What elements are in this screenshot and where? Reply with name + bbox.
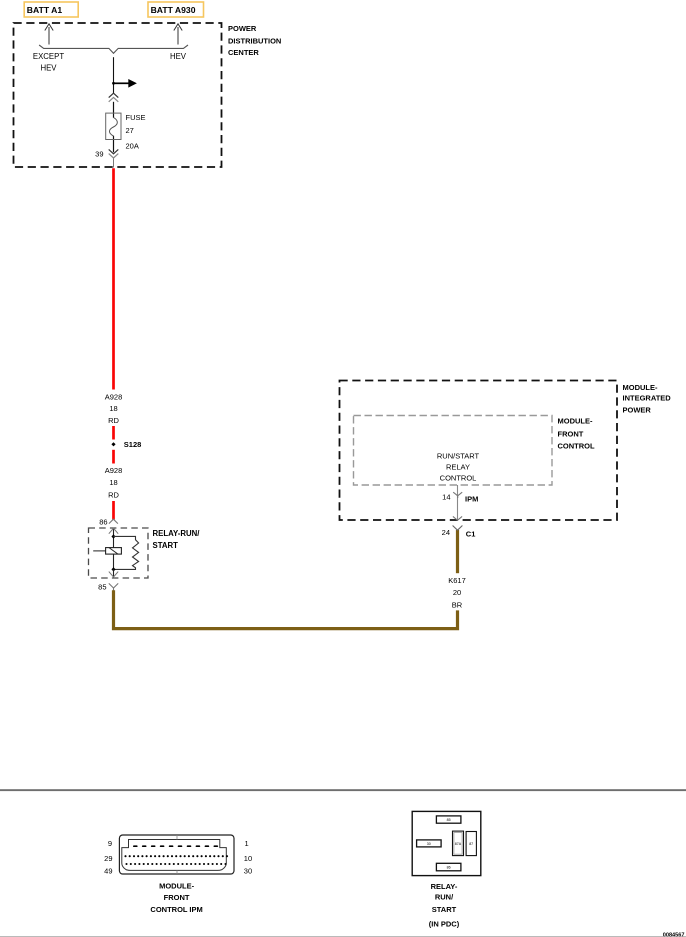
wire out of relay, arrowhead down <box>109 569 118 577</box>
wire: feed arrow to BATT A1 <box>45 24 53 45</box>
splice S128 <box>111 442 115 446</box>
connector pins row 1 <box>133 845 218 847</box>
relay cavity labels 85 30 87A 87 86 <box>427 818 473 870</box>
svg-text:DISTRIBUTION: DISTRIBUTION <box>228 36 281 45</box>
svg-text:RUN/START: RUN/START <box>437 452 480 461</box>
svg-text:CONTROL: CONTROL <box>440 473 477 482</box>
label FUSE 27 20A <box>126 113 146 150</box>
node: junction at branch <box>112 82 115 85</box>
label POWER DISTRIBUTION CENTER <box>228 24 281 57</box>
svg-text:HEV: HEV <box>40 64 57 73</box>
svg-text:39: 39 <box>95 149 103 158</box>
svg-text:20A: 20A <box>126 142 139 151</box>
svg-text:1: 1 <box>245 839 249 848</box>
power distribution center box <box>14 23 222 167</box>
connector: female half at pin 85 <box>109 583 118 590</box>
wire: PDC internal vertical (mid lower) <box>113 136 115 152</box>
svg-text:86: 86 <box>447 866 451 870</box>
svg-text:20: 20 <box>453 588 461 597</box>
battery feed box BATT A1 <box>24 2 78 17</box>
connector C1 female half <box>453 526 463 531</box>
wire: PDC internal vertical (upper) <box>113 57 115 93</box>
svg-text:86: 86 <box>99 517 107 526</box>
svg-text:18: 18 <box>109 404 117 413</box>
wire segment above splice <box>112 426 115 440</box>
battery feed box BATT A930 <box>148 2 204 17</box>
wire into relay with arrowhead <box>109 528 118 569</box>
label MODULE-INTEGRATED POWER <box>623 383 672 415</box>
connector IPM female half <box>453 492 462 498</box>
svg-text:29: 29 <box>104 854 112 863</box>
label A928 18 RD (2) <box>105 466 123 500</box>
connector symbol: double chevron down <box>109 149 119 158</box>
svg-text:S128: S128 <box>124 440 142 449</box>
label RELAY-RUN/ START <box>153 529 201 550</box>
connector symbol: double chevron up <box>109 93 119 102</box>
label EXCEPT HEV <box>33 52 64 73</box>
svg-text:18: 18 <box>109 478 117 487</box>
svg-text:CONTROL IPM: CONTROL IPM <box>150 905 202 914</box>
label RELAY- RUN/ START (IN PDC) <box>429 882 460 929</box>
svg-text:9: 9 <box>108 839 112 848</box>
svg-text:CONTROL: CONTROL <box>558 442 595 451</box>
svg-text:K617: K617 <box>448 576 466 585</box>
svg-text:A928: A928 <box>105 466 123 475</box>
relay RUN/START dashed box <box>89 528 149 578</box>
arrowhead at outer box border <box>453 516 462 520</box>
svg-text:24: 24 <box>442 528 450 537</box>
svg-text:FRONT: FRONT <box>558 429 584 438</box>
label RUN/START RELAY CONTROL <box>437 452 480 483</box>
svg-text:RELAY-: RELAY- <box>431 882 458 891</box>
svg-text:(IN PDC): (IN PDC) <box>429 920 460 929</box>
svg-text:RUN/: RUN/ <box>435 892 454 901</box>
label K617 20 BR <box>448 576 466 609</box>
connector pins row 2 <box>124 855 228 857</box>
svg-text:MODULE-: MODULE- <box>623 383 658 392</box>
svg-text:RD: RD <box>108 491 119 500</box>
svg-text:HEV: HEV <box>170 52 187 61</box>
wire IPM control line <box>457 485 459 520</box>
svg-text:85: 85 <box>447 818 451 822</box>
svg-text:POWER: POWER <box>623 406 652 415</box>
svg-text:A928: A928 <box>105 393 123 402</box>
svg-text:14: 14 <box>442 493 450 502</box>
svg-text:30: 30 <box>244 867 252 876</box>
svg-text:POWER: POWER <box>228 24 257 33</box>
svg-text:FRONT: FRONT <box>164 893 190 902</box>
wire K617 20 BR (left leg and bottom run) <box>114 590 458 628</box>
wire segment below splice <box>112 450 115 464</box>
node: coil bottom junction <box>111 567 115 571</box>
wire: feed arrow to BATT A930 <box>174 24 182 45</box>
svg-text:IPM: IPM <box>465 494 478 503</box>
wire: PDC internal vertical (lower gray) <box>113 158 115 168</box>
svg-text:START: START <box>153 541 179 550</box>
svg-text:INTEGRATED: INTEGRATED <box>623 394 672 403</box>
wire A928 18 RD segment 1 <box>112 168 115 389</box>
svg-text:BATT A1: BATT A1 <box>27 5 63 15</box>
svg-text:87A: 87A <box>455 842 462 846</box>
wire: PDC internal vertical (mid upper) <box>113 102 115 118</box>
svg-text:27: 27 <box>126 126 134 135</box>
svg-text:30: 30 <box>427 842 431 846</box>
svg-text:START: START <box>432 905 457 914</box>
label MODULE- FRONT CONTROL IPM <box>150 882 202 914</box>
wire K617 upper segment to C1 <box>456 530 459 573</box>
svg-text:BATT A930: BATT A930 <box>151 5 196 15</box>
label A928 18 RD <box>105 393 123 426</box>
connector: male half-arrow at pin 86 <box>109 519 118 523</box>
svg-text:EXCEPT: EXCEPT <box>33 52 64 61</box>
svg-text:10: 10 <box>244 854 252 863</box>
connector pins row 3 <box>125 863 226 865</box>
wire: branch arrow right <box>114 79 137 88</box>
fuse 27 <box>106 113 121 139</box>
wire A928 segment to relay <box>112 501 115 520</box>
svg-text:RELAY: RELAY <box>446 462 470 471</box>
svg-text:CENTER: CENTER <box>228 48 259 57</box>
node: coil top junction <box>111 534 115 538</box>
svg-text:87: 87 <box>469 842 473 846</box>
svg-text:RELAY-RUN/: RELAY-RUN/ <box>153 529 201 538</box>
svg-text:FUSE: FUSE <box>126 113 146 122</box>
svg-text:RD: RD <box>108 416 119 425</box>
svg-text:MODULE-: MODULE- <box>558 417 593 426</box>
bottom edge line <box>0 935 686 937</box>
relay cavity view RELAY-RUN/START <box>412 811 481 875</box>
label MODULE- FRONT CONTROL <box>558 417 595 451</box>
separator line <box>0 789 686 791</box>
resistor (coil suppression) <box>114 536 139 569</box>
module-integrated power box <box>340 381 618 521</box>
svg-text:49: 49 <box>104 867 112 876</box>
module-front control box <box>354 416 553 486</box>
svg-text:C1: C1 <box>466 529 476 538</box>
svg-text:MODULE-: MODULE- <box>159 882 194 891</box>
svg-text:85: 85 <box>98 582 106 591</box>
options brace (EXCEPT HEV / HEV) <box>39 45 188 53</box>
connector view MODULE-FRONT CONTROL IPM: body <box>119 835 234 874</box>
svg-text:BR: BR <box>452 600 463 609</box>
relay coil <box>93 548 121 555</box>
